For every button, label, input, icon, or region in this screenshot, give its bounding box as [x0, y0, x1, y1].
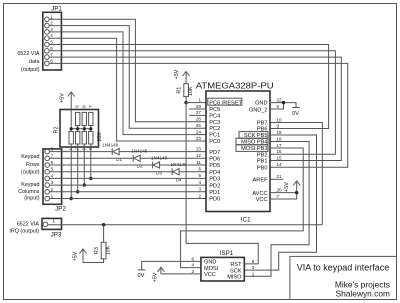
svg-text:4: 4 [191, 263, 194, 268]
svg-text:PC3: PC3 [209, 120, 220, 126]
svg-text:PB0: PB0 [257, 165, 268, 171]
wire JP1.1 to PC3 [49, 19, 206, 122]
svg-text:10: 10 [277, 117, 283, 122]
svg-text:23: 23 [196, 136, 202, 141]
wire JP2.7 row to D2 [50, 157, 133, 159]
wire JP2.8 row to D1 [50, 151, 112, 153]
wire D1 to PD7 [119, 151, 206, 153]
svg-text:7: 7 [277, 194, 280, 199]
junction RESET [184, 101, 187, 104]
junction AVCC [295, 191, 298, 194]
wire R2 col1 to JP2.1 [70, 144, 72, 199]
svg-text:4: 4 [50, 33, 53, 38]
svg-text:2: 2 [50, 21, 53, 26]
R2 top row resistors [76, 112, 80, 125]
svg-text:MOSI: MOSI [204, 266, 219, 272]
svg-text:JP1: JP1 [51, 5, 62, 12]
wire GND pin8 [270, 103, 284, 109]
wire D3 to PD5 [160, 164, 206, 166]
svg-text:14: 14 [277, 162, 283, 167]
wire D2 to PD6 [140, 157, 206, 159]
wire R2 col3 to JP2.3 [83, 144, 85, 185]
svg-text:PD2: PD2 [209, 183, 220, 189]
svg-text:4: 4 [51, 173, 54, 178]
svg-text:6: 6 [198, 167, 201, 172]
resistor R1 [177, 72, 194, 103]
svg-text:R1: R1 [177, 87, 183, 94]
label Keypad Rows (output) [21, 154, 40, 175]
svg-text:IRQ (output): IRQ (output) [9, 229, 39, 235]
ground 0V at ISP [137, 270, 145, 279]
wire JP2.5 row to D4 [50, 171, 172, 173]
diode D4 [171, 162, 188, 182]
svg-text:SCK: SCK [230, 268, 242, 274]
svg-text:12: 12 [196, 153, 202, 158]
svg-text:9: 9 [277, 123, 280, 128]
left pin labels [208, 98, 243, 203]
right pin labels [236, 101, 268, 204]
R2 internal wires [70, 110, 72, 132]
svg-text:PC2: PC2 [209, 126, 220, 132]
svg-text:1: 1 [50, 14, 53, 19]
svg-text:ATMEGA328P-PU: ATMEGA328P-PU [196, 82, 274, 91]
wire MOSI to ISP [181, 148, 304, 268]
svg-text:Shalewyn.com: Shalewyn.com [336, 288, 390, 298]
svg-text:18: 18 [277, 136, 283, 141]
svg-text:6: 6 [50, 46, 53, 51]
svg-text:26: 26 [196, 117, 202, 122]
svg-text:AREF: AREF [253, 178, 269, 184]
svg-text:Rows: Rows [26, 162, 40, 168]
svg-text:21: 21 [277, 174, 283, 179]
label 6522 VIA data (output) [17, 51, 40, 73]
svg-text:15: 15 [277, 155, 283, 160]
wire ISP VCC to +5V [161, 273, 201, 275]
+5V at R3 [73, 249, 87, 263]
+5V at AVCC [284, 181, 300, 193]
wire JP2.1 to PD0 [50, 198, 207, 200]
+5V at R2 [60, 92, 75, 110]
svg-text:9: 9 [75, 105, 80, 108]
svg-text:(input): (input) [24, 196, 39, 202]
svg-text:3: 3 [198, 187, 201, 192]
svg-text:Keypad: Keypad [21, 182, 39, 188]
svg-text:19: 19 [277, 130, 283, 135]
svg-text:GND_2: GND_2 [249, 107, 268, 113]
junction R3 top [102, 223, 105, 226]
svg-text:PD0: PD0 [209, 197, 220, 203]
wire JP1.8 to PB0 [49, 63, 348, 167]
wire JP1.5 to PB6 [49, 45, 328, 129]
svg-text:MOSI PB3: MOSI PB3 [241, 146, 267, 152]
diode D2 [131, 149, 148, 169]
svg-text:PC6 /RESET: PC6 /RESET [209, 101, 242, 107]
svg-text:+5V: +5V [60, 93, 66, 103]
title block [290, 256, 397, 299]
svg-text:(output): (output) [21, 67, 40, 73]
svg-text:1N4148: 1N4148 [131, 149, 148, 154]
ground 0V top [292, 108, 300, 117]
svg-text:R2: R2 [54, 127, 60, 134]
ISP connector ISP1 [191, 250, 254, 281]
svg-text:PC0: PC0 [209, 139, 220, 145]
svg-text:1: 1 [51, 194, 54, 199]
wire JP1.2 to PC2 [49, 26, 206, 129]
svg-text:25: 25 [196, 123, 202, 128]
svg-text:+5V: +5V [73, 251, 79, 261]
svg-text:10K: 10K [105, 245, 111, 255]
svg-text:6: 6 [191, 256, 194, 261]
left pin numbers [196, 97, 202, 198]
IC ATMEGA328P-PU [196, 82, 274, 224]
svg-text:2: 2 [191, 269, 194, 274]
svg-text:11: 11 [196, 160, 201, 165]
svg-text:PC5: PC5 [209, 107, 220, 113]
svg-text:7: 7 [50, 52, 53, 57]
svg-text:24: 24 [196, 129, 202, 134]
diode D3 [151, 156, 168, 176]
svg-text:MISO: MISO [227, 275, 242, 281]
svg-text:3: 3 [50, 27, 53, 32]
wire ISP GND to 0V [142, 261, 201, 270]
svg-text:AVCC: AVCC [252, 191, 267, 197]
label 6522 VIA IRQ (output) [9, 222, 39, 235]
svg-text:PB1: PB1 [257, 159, 268, 165]
svg-text:7: 7 [88, 105, 93, 108]
svg-text:GND: GND [255, 101, 267, 107]
svg-text:16: 16 [277, 149, 283, 154]
svg-text:1N4148: 1N4148 [102, 142, 119, 147]
svg-text:2: 2 [51, 187, 54, 192]
svg-text:5: 5 [50, 40, 53, 45]
svg-text:Keypad: Keypad [21, 154, 39, 160]
svg-text:PD5: PD5 [209, 163, 220, 169]
resistor network R2 [54, 105, 104, 151]
svg-text:+5V: +5V [174, 69, 180, 79]
svg-text:PD6: PD6 [209, 157, 220, 163]
svg-text:1: 1 [252, 271, 255, 276]
svg-text:PD3: PD3 [209, 177, 220, 183]
svg-text:+5V: +5V [152, 272, 158, 282]
connector JP2 [43, 147, 66, 213]
wire VCC [270, 193, 297, 199]
svg-text:20: 20 [277, 187, 283, 192]
wire AVCC [270, 192, 297, 194]
svg-text:JP2: JP2 [55, 205, 66, 212]
wire JP1.4 to PC0 [49, 38, 206, 141]
svg-text:6522 VIA: 6522 VIA [17, 222, 40, 228]
svg-text:VCC: VCC [256, 197, 268, 203]
wire JP1.3 to PC1 [49, 32, 206, 135]
svg-text:PD4: PD4 [209, 170, 220, 176]
svg-text:RST: RST [230, 262, 242, 268]
wire JP2.4 to PD3 [50, 177, 207, 179]
+5V at ISP [152, 267, 164, 282]
svg-text:PD1: PD1 [209, 190, 220, 196]
wire R2 col2 to JP2.2 [77, 144, 79, 192]
svg-text:D1: D1 [116, 157, 122, 162]
svg-text:1N4148: 1N4148 [151, 156, 168, 161]
svg-text:5: 5 [198, 173, 201, 178]
wire RESET to ISP RST [186, 103, 258, 264]
wire D4 to PD4 [179, 171, 206, 173]
svg-text:+5V: +5V [284, 182, 290, 192]
svg-text:8: 8 [50, 58, 53, 63]
svg-text:22: 22 [277, 97, 283, 102]
svg-text:13: 13 [196, 146, 202, 151]
svg-text:28: 28 [196, 104, 202, 109]
svg-text:8: 8 [81, 105, 86, 108]
svg-text:JP3: JP3 [51, 231, 62, 238]
wire JP2.3 to PD2 [50, 184, 207, 186]
svg-text:PD7: PD7 [209, 150, 220, 156]
wire AREF stub [270, 178, 284, 180]
svg-text:0V: 0V [137, 273, 144, 279]
svg-text:ISP1: ISP1 [220, 250, 234, 257]
svg-text:data: data [29, 59, 40, 65]
diode D1 [102, 142, 122, 162]
wire JP2.6 row to D3 [50, 164, 153, 166]
svg-text:17: 17 [277, 143, 283, 148]
svg-text:VCC: VCC [204, 272, 216, 278]
wire R2 col4 to JP2.4 [90, 144, 92, 178]
wire MISO to ISP [245, 142, 309, 277]
wire RESET stub [186, 102, 206, 104]
wire JP1.7 to PB1 [49, 57, 341, 160]
wire JP3 to stair x322 [48, 224, 323, 226]
svg-text:GND: GND [204, 260, 216, 266]
svg-text:7: 7 [51, 153, 54, 158]
svg-text:6: 6 [51, 160, 54, 165]
connector JP1 [43, 5, 63, 70]
svg-text:27: 27 [196, 110, 202, 115]
wire PB7 to JP3 IRQ [270, 123, 322, 225]
pin stubs PC5 PC4 (nc) [189, 108, 206, 110]
svg-text:IC1: IC1 [241, 216, 251, 223]
wire JP2.2 to PD1 [50, 191, 207, 193]
svg-text:3: 3 [51, 180, 54, 185]
wire JP1.6 to PB2 [49, 51, 335, 155]
right pin numbers [277, 97, 283, 198]
svg-text:1N4148: 1N4148 [171, 162, 188, 167]
R2 bottom row resistors [69, 132, 73, 145]
svg-text:(output): (output) [21, 170, 40, 176]
svg-text:0V: 0V [292, 111, 299, 117]
+5V at R1 [174, 69, 190, 79]
wire SCK to ISP [245, 135, 317, 270]
svg-text:10K: 10K [188, 86, 194, 96]
resistor R3 [83, 225, 111, 263]
svg-text:8: 8 [51, 147, 54, 152]
svg-text:VIA to keypad interface: VIA to keypad interface [297, 263, 390, 273]
wire GND pin22 [270, 103, 296, 108]
svg-text:8: 8 [277, 104, 280, 109]
connector JP3 [42, 218, 62, 238]
svg-text:3: 3 [252, 265, 255, 270]
svg-text:R3: R3 [94, 247, 100, 254]
svg-text:1: 1 [198, 97, 201, 102]
svg-text:10K: 10K [97, 132, 103, 142]
junction GND [282, 101, 285, 104]
svg-text:PC4: PC4 [209, 113, 220, 119]
svg-text:Columns: Columns [18, 189, 40, 195]
svg-text:PC1: PC1 [209, 133, 220, 139]
svg-text:6522 VIA: 6522 VIA [17, 51, 40, 57]
svg-text:4: 4 [198, 180, 201, 185]
svg-text:2: 2 [198, 193, 201, 198]
label Keypad Columns (input) [18, 182, 40, 202]
svg-text:1: 1 [53, 219, 56, 224]
svg-text:5: 5 [252, 259, 255, 264]
svg-text:PB2: PB2 [257, 153, 268, 159]
svg-text:5: 5 [51, 167, 54, 172]
svg-text:D2: D2 [137, 164, 143, 169]
